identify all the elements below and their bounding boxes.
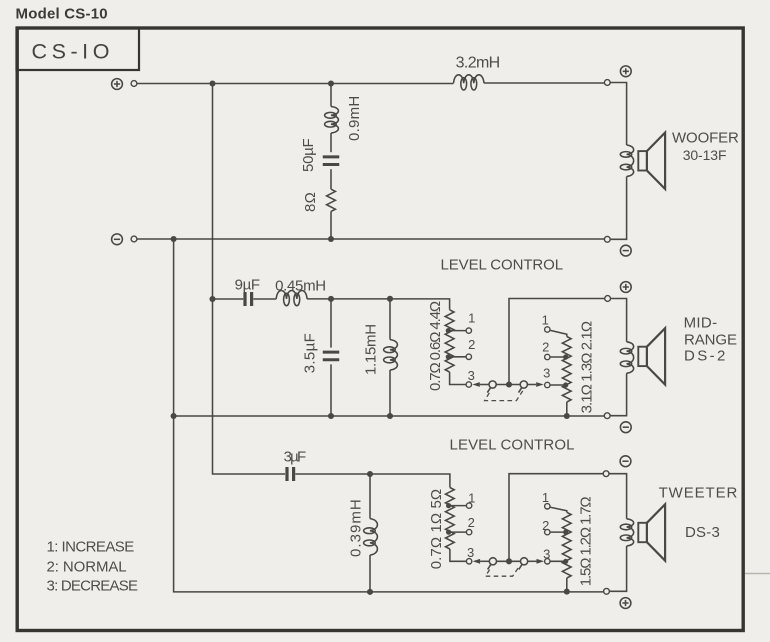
junction tweeter feed (367, 471, 373, 477)
wire mid bottom rail (174, 415, 605, 417)
svg-text:3: 3 (543, 366, 550, 381)
wire tw wiper center (496, 560, 520, 562)
wire mid right tap2 (550, 356, 566, 358)
pin tw 2 (466, 529, 471, 534)
pin mid right 3 (545, 382, 550, 387)
wire R5 bottom (566, 578, 568, 592)
svg-text:30-13F: 30-13F (683, 147, 727, 163)
svg-text:DS-3: DS-3 (685, 524, 720, 541)
svg-text:DS-2: DS-2 (684, 347, 728, 364)
pin tw right 1 (545, 504, 550, 509)
svg-text:TWEETER: TWEETER (659, 484, 739, 501)
wire L4 bottom (389, 370, 391, 416)
svg-text:3.1Ω 1.3Ω 2.1Ω: 3.1Ω 1.3Ω 2.1Ω (578, 321, 595, 413)
wire voice coil to tw + (609, 546, 626, 591)
wire R4 bottom to tap3 (450, 549, 467, 561)
resistor R1 8ohm (327, 189, 336, 211)
switch contact tw right (521, 558, 528, 565)
svg-text:3: 3 (468, 368, 475, 383)
wire L5 top (369, 474, 371, 519)
junction tw wiper (506, 558, 512, 564)
capacitor C3 3.5uF (323, 352, 340, 360)
pin tw right 3 (545, 559, 550, 564)
junction R4 tap2 (446, 530, 451, 535)
inductor L3 0.45mH (276, 291, 307, 299)
wire - bus vertical (174, 239, 604, 592)
wire C3 top (330, 299, 332, 348)
junction woofer - rail B (328, 236, 334, 242)
wire L2 to C1 (330, 133, 332, 152)
svg-text:2: 2 (468, 337, 475, 352)
wire R2 tap2 (448, 356, 466, 358)
junction R3 tap2 (563, 354, 568, 359)
wire tw - to voice coil (609, 474, 627, 519)
pin mid 2 (466, 354, 471, 359)
resistor R5 tweeter attenuator (562, 512, 571, 578)
svg-text:WOOFER: WOOFER (672, 129, 739, 146)
pin tw 1 (466, 503, 471, 508)
junction R2 tap2 (446, 354, 451, 359)
speaker midrange (638, 347, 647, 366)
wire woofer - rail (137, 238, 604, 240)
switch wiper tw right (528, 560, 537, 562)
svg-text:50µF: 50µF (300, 138, 317, 172)
wire R3 bottom (566, 402, 568, 416)
junction R2 tap1 (446, 328, 451, 333)
svg-text:3.2mH: 3.2mH (456, 54, 500, 71)
speaker tweeter (638, 523, 647, 542)
junction mid wiper (506, 381, 512, 387)
svg-text:1: 1 (468, 491, 475, 506)
inductor L2 0.9mH (331, 107, 338, 134)
node woofer + terminal (604, 80, 610, 86)
wire woofer + to voice coil (610, 83, 626, 146)
svg-text:3: 3 (543, 547, 550, 562)
svg-text:0.7Ω 0.6Ω 4.4Ω: 0.7Ω 0.6Ω 4.4Ω (427, 301, 444, 391)
svg-text:3: 3 (467, 545, 474, 560)
wire L5 bottom (369, 555, 371, 592)
wire tw right tap3 (550, 560, 566, 562)
pin mid right 2 (545, 354, 550, 359)
svg-text:0.39mH: 0.39mH (348, 498, 365, 557)
pin mid right 1 (545, 327, 550, 332)
svg-text:2: 2 (542, 518, 549, 533)
inductor L5 0.39mH (370, 519, 377, 555)
junction R4 tap1 (446, 503, 451, 508)
svg-text:Model CS-10: Model CS-10 (16, 6, 108, 23)
node woofer - terminal (604, 236, 610, 242)
voice coil tweeter (627, 519, 634, 546)
wire voice coil to mid - (610, 373, 627, 416)
wire mid feed left (213, 298, 244, 300)
pin tw 3 (466, 559, 471, 564)
switch contact mid left (489, 381, 496, 388)
node input + terminal (112, 79, 123, 90)
switch contact tw left (489, 558, 496, 565)
svg-text:0.7Ω 1Ω 5Ω: 0.7Ω 1Ω 5Ω (428, 489, 445, 570)
wire C1 to R1 (330, 169, 332, 189)
wire tw wiper riser (509, 474, 603, 562)
wire mid feed right (307, 299, 450, 310)
node input - terminal (112, 234, 123, 245)
junction top rail A (209, 80, 215, 86)
wire R2 bottom to tap3 (450, 372, 467, 385)
svg-text:0.45mH: 0.45mH (275, 278, 326, 295)
svg-text:1: 1 (468, 311, 475, 326)
svg-text:2: 2 (468, 515, 475, 530)
resistor R4 tweeter attenuator (446, 488, 455, 550)
pin tw right 2 (545, 529, 550, 534)
wire mid wiper riser (509, 299, 605, 385)
speaker woofer (638, 151, 647, 170)
capacitor C1 50uF (323, 157, 340, 165)
node mid + terminal (605, 296, 611, 302)
junction mid rail A (171, 413, 177, 419)
svg-text:1.15mH: 1.15mH (363, 324, 380, 375)
wire tw right tap2 (550, 531, 566, 533)
junction L5 bottom (367, 589, 373, 595)
junction mid rail C (387, 413, 393, 419)
junction mid rail B (328, 413, 334, 419)
svg-text:3: DECREASE: 3: DECREASE (47, 578, 138, 595)
svg-text:LEVEL CONTROL: LEVEL CONTROL (441, 257, 563, 274)
switch contact mid right (520, 381, 527, 388)
inductor L1 3.2mH (454, 75, 485, 83)
svg-text:2: 2 (542, 340, 549, 355)
voice coil midrange (627, 342, 634, 373)
switch wiper mid left (472, 382, 480, 387)
node tweeter - terminal (603, 471, 609, 477)
svg-text:0.9mH: 0.9mH (346, 95, 363, 141)
wire C4 to level control (295, 474, 450, 488)
junction R5 tap2 (563, 530, 568, 535)
pin mid 1 (466, 328, 471, 333)
wire mid wiper center (496, 384, 520, 386)
wire C3 bottom (330, 364, 332, 416)
switch wiper mid right (527, 384, 536, 386)
wire R2 tap1 (448, 330, 466, 332)
wire mid right tap1 (550, 330, 567, 336)
wire R4 tap2 (449, 531, 467, 533)
switch wiper tw left (473, 559, 481, 564)
svg-text:2: NORMAL: 2: NORMAL (47, 558, 127, 575)
voice coil woofer (627, 145, 634, 177)
wire tw right tap1 (550, 507, 567, 512)
junction mid feed A (209, 296, 215, 302)
svg-text:1: INCREASE: 1: INCREASE (47, 538, 135, 555)
svg-text:1: 1 (542, 313, 549, 328)
svg-text:CS-IO: CS-IO (32, 39, 114, 63)
wire top + rail (137, 82, 604, 85)
wire + bus vertical (213, 84, 286, 475)
svg-text:9µF: 9µF (235, 277, 260, 294)
wire R4 tap1 (449, 505, 467, 507)
wire voice coil to woofer - (610, 177, 626, 240)
svg-text:8Ω: 8Ω (302, 192, 319, 212)
junction woofer - rail A (171, 236, 177, 242)
wire woofer shunt top (330, 84, 332, 107)
svg-text:LEVEL CONTROL: LEVEL CONTROL (450, 437, 575, 454)
junction top rail B (328, 80, 334, 86)
junction mid feed C (387, 296, 393, 302)
junction R5 tap3 (563, 559, 568, 564)
resistor R3 mid attenuator (562, 337, 571, 403)
junction mid rail D (564, 413, 570, 419)
wire mid + to voice coil (611, 299, 627, 342)
wire L4 top (389, 299, 391, 340)
svg-text:MID-: MID- (684, 314, 718, 331)
capacitor C4 3uF (287, 467, 294, 481)
capacitor C2 9uF (245, 292, 252, 306)
linkage tweeter (dashed) (486, 566, 520, 576)
resistor R2 mid attenuator (445, 310, 454, 372)
wire R1 bottom (330, 211, 332, 239)
svg-text:RANGE: RANGE (684, 331, 737, 348)
junction R3 tap3 (563, 382, 568, 387)
wire mid right tap3 (550, 384, 566, 386)
svg-text:1.5Ω 1.2Ω 1.7Ω: 1.5Ω 1.2Ω 1.7Ω (577, 497, 594, 587)
inductor L4 1.15mH (390, 340, 397, 370)
svg-text:3.5µF: 3.5µF (302, 333, 319, 373)
node tweeter + terminal (604, 588, 610, 594)
node mid - terminal (604, 413, 610, 419)
svg-text:3µF: 3µF (284, 449, 306, 466)
junction R5 bottom (564, 589, 570, 595)
svg-text:1: 1 (542, 490, 549, 505)
pin mid 3 (466, 382, 471, 387)
junction mid feed B (328, 296, 334, 302)
wire C2 to L3 (253, 298, 276, 300)
linkage mid (dashed) (485, 391, 523, 401)
